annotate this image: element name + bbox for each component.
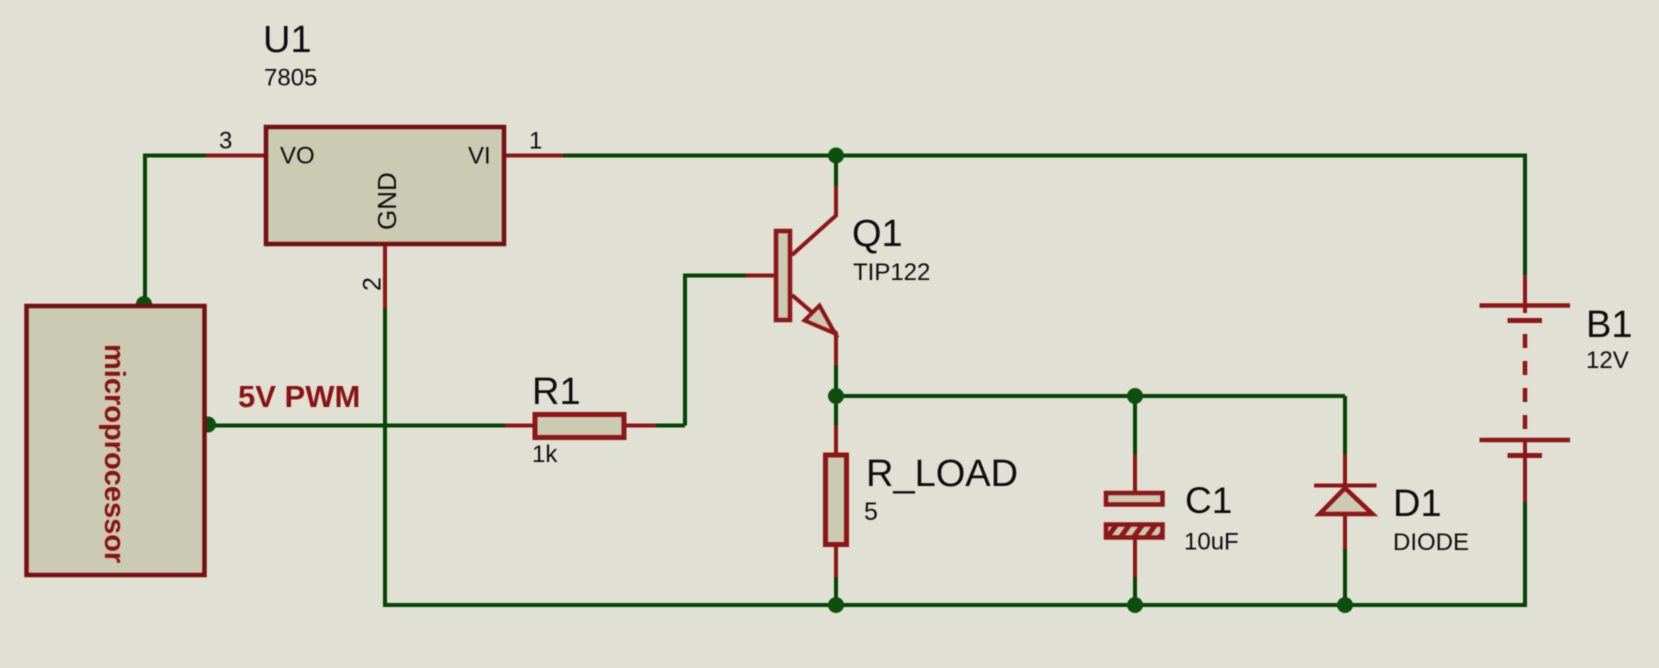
svg-text:2: 2 xyxy=(359,277,387,291)
svg-text:D1: D1 xyxy=(1393,483,1442,525)
svg-text:10uF: 10uF xyxy=(1184,529,1239,556)
svg-text:5V PWM: 5V PWM xyxy=(238,379,360,414)
svg-text:1k: 1k xyxy=(532,441,558,468)
svg-text:7805: 7805 xyxy=(264,65,317,92)
svg-text:3: 3 xyxy=(219,128,232,155)
svg-text:5: 5 xyxy=(864,498,878,526)
svg-text:U1: U1 xyxy=(263,19,312,61)
svg-text:12V: 12V xyxy=(1586,347,1629,374)
svg-text:1: 1 xyxy=(529,128,542,155)
svg-text:R_LOAD: R_LOAD xyxy=(866,453,1018,495)
svg-text:VO: VO xyxy=(280,143,315,170)
svg-text:TIP122: TIP122 xyxy=(853,259,930,286)
svg-text:C1: C1 xyxy=(1185,480,1232,521)
svg-text:B1: B1 xyxy=(1586,304,1632,346)
svg-text:VI: VI xyxy=(468,143,491,170)
svg-text:Q1: Q1 xyxy=(852,213,903,255)
svg-text:R1: R1 xyxy=(532,371,581,413)
svg-text:microprocessor: microprocessor xyxy=(98,344,130,563)
svg-text:GND: GND xyxy=(372,172,402,230)
svg-text:DIODE: DIODE xyxy=(1393,529,1469,556)
